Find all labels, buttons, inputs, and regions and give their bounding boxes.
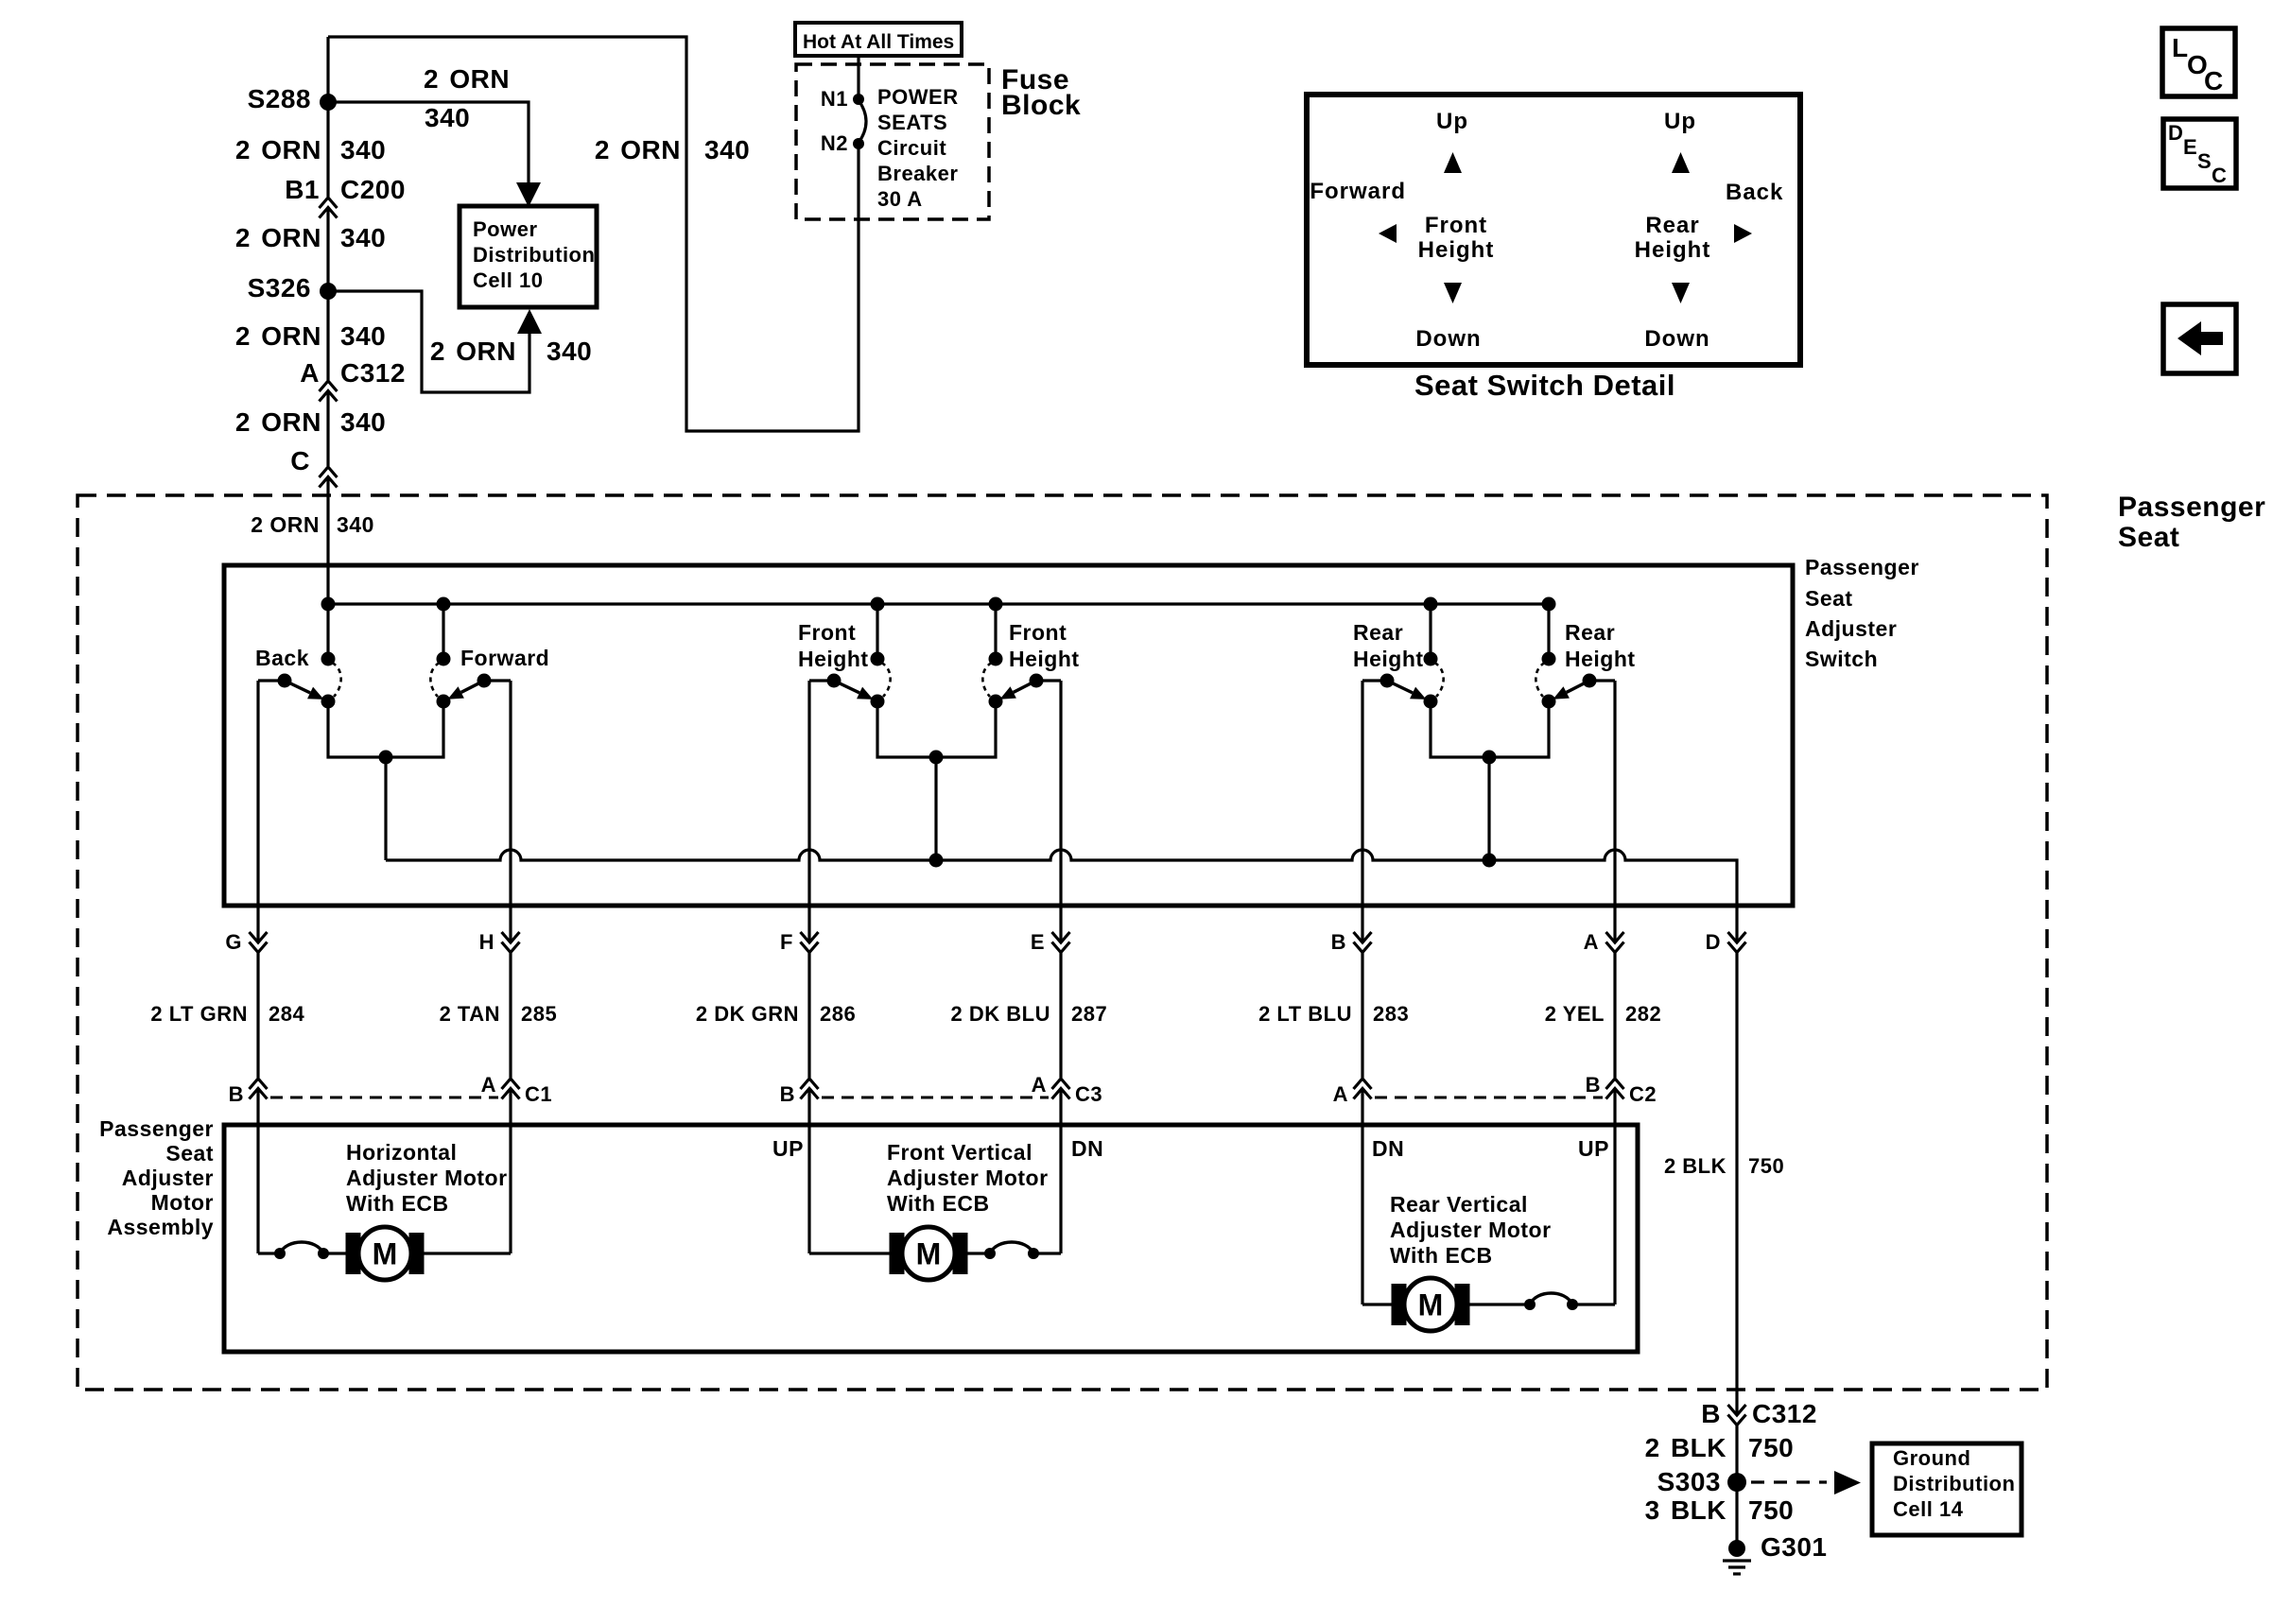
svg-text:2 ORN: 2 ORN [235, 407, 321, 437]
svg-text:Seat Switch Detail: Seat Switch Detail [1414, 369, 1675, 402]
svg-text:340: 340 [704, 135, 750, 164]
svg-text:2 DK BLU: 2 DK BLU [951, 1002, 1050, 1026]
svg-text:N1: N1 [821, 87, 848, 111]
svg-text:283: 283 [1373, 1002, 1409, 1026]
svg-text:Down: Down [1415, 326, 1481, 352]
svg-text:M: M [916, 1237, 942, 1271]
svg-text:C312: C312 [340, 358, 406, 388]
svg-text:Up: Up [1664, 109, 1696, 134]
svg-text:Back: Back [255, 646, 309, 670]
svg-text:Height: Height [1418, 237, 1495, 263]
svg-text:Passenger: Passenger [2118, 492, 2265, 523]
svg-text:B: B [780, 1082, 795, 1106]
svg-text:Adjuster Motor: Adjuster Motor [887, 1166, 1049, 1190]
svg-text:Breaker: Breaker [877, 162, 958, 185]
svg-text:2 TAN: 2 TAN [440, 1002, 500, 1026]
svg-text:A: A [300, 358, 320, 388]
svg-text:Front: Front [798, 620, 856, 645]
svg-text:Ground: Ground [1893, 1446, 1970, 1470]
svg-text:2 ORN: 2 ORN [424, 64, 510, 94]
svg-text:Back: Back [1726, 180, 1783, 205]
svg-text:285: 285 [521, 1002, 557, 1026]
svg-text:DN: DN [1372, 1136, 1404, 1161]
svg-text:M: M [373, 1237, 398, 1271]
svg-text:30 A: 30 A [877, 187, 923, 211]
svg-text:Block: Block [1001, 90, 1081, 121]
svg-text:Forward: Forward [460, 646, 549, 670]
svg-text:L: L [2172, 33, 2189, 62]
svg-text:A: A [481, 1073, 496, 1097]
svg-text:With ECB: With ECB [887, 1191, 990, 1216]
svg-text:Cell 10: Cell 10 [473, 268, 543, 292]
svg-text:D: D [1706, 930, 1721, 954]
svg-text:C312: C312 [1752, 1399, 1817, 1428]
svg-text:340: 340 [340, 135, 386, 164]
svg-text:UP: UP [1578, 1136, 1609, 1161]
svg-text:2 ORN: 2 ORN [235, 223, 321, 252]
svg-text:Motor: Motor [151, 1190, 214, 1215]
svg-text:3 BLK: 3 BLK [1645, 1495, 1726, 1525]
svg-text:C: C [2212, 164, 2227, 187]
svg-text:Front Vertical: Front Vertical [887, 1140, 1032, 1165]
svg-text:S288: S288 [248, 84, 311, 113]
svg-text:Height: Height [798, 647, 869, 671]
svg-text:D: D [2168, 121, 2183, 145]
svg-text:Adjuster: Adjuster [122, 1166, 214, 1190]
svg-text:S: S [2197, 149, 2212, 173]
svg-text:Seat: Seat [2118, 522, 2179, 553]
svg-text:340: 340 [547, 337, 592, 366]
svg-text:Adjuster: Adjuster [1805, 616, 1897, 641]
svg-text:750: 750 [1748, 1154, 1784, 1178]
svg-text:C: C [2204, 66, 2224, 95]
svg-text:Assembly: Assembly [107, 1215, 214, 1239]
svg-text:Distribution: Distribution [1893, 1472, 2015, 1495]
svg-text:Forward: Forward [1310, 179, 1406, 204]
svg-text:Horizontal: Horizontal [346, 1140, 457, 1165]
svg-text:B1: B1 [285, 175, 320, 204]
svg-text:340: 340 [340, 321, 386, 351]
svg-text:S303: S303 [1657, 1467, 1721, 1496]
svg-text:282: 282 [1625, 1002, 1661, 1026]
svg-text:Down: Down [1644, 326, 1709, 352]
svg-text:C1: C1 [525, 1082, 552, 1106]
svg-text:2 ORN: 2 ORN [430, 337, 516, 366]
svg-text:E: E [1031, 930, 1045, 954]
svg-text:Up: Up [1436, 109, 1468, 134]
svg-text:Height: Height [1009, 647, 1080, 671]
svg-text:750: 750 [1748, 1433, 1794, 1462]
svg-text:2 DK GRN: 2 DK GRN [696, 1002, 799, 1026]
svg-text:C: C [290, 446, 310, 475]
svg-text:DN: DN [1071, 1136, 1103, 1161]
svg-text:Rear Vertical: Rear Vertical [1390, 1192, 1528, 1217]
svg-text:340: 340 [340, 407, 386, 437]
svg-text:Rear: Rear [1645, 213, 1699, 238]
svg-text:B: B [1701, 1399, 1721, 1428]
svg-text:Seat: Seat [165, 1141, 214, 1166]
svg-text:Height: Height [1565, 647, 1636, 671]
svg-text:2 BLK: 2 BLK [1645, 1433, 1726, 1462]
svg-text:286: 286 [820, 1002, 856, 1026]
svg-text:POWER: POWER [877, 85, 959, 109]
svg-text:Power: Power [473, 217, 538, 241]
svg-text:2 ORN: 2 ORN [251, 512, 320, 537]
svg-text:2 BLK: 2 BLK [1664, 1154, 1726, 1178]
svg-text:N2: N2 [821, 131, 848, 155]
svg-text:G301: G301 [1761, 1532, 1828, 1562]
svg-text:340: 340 [425, 103, 470, 132]
svg-text:750: 750 [1748, 1495, 1794, 1525]
svg-text:340: 340 [337, 512, 374, 537]
svg-text:With ECB: With ECB [1390, 1243, 1493, 1268]
svg-text:H: H [479, 930, 495, 954]
svg-text:S326: S326 [248, 273, 311, 302]
svg-text:Front: Front [1009, 620, 1067, 645]
svg-text:Rear: Rear [1353, 620, 1403, 645]
svg-text:A: A [1032, 1073, 1047, 1097]
svg-text:E: E [2183, 135, 2197, 159]
svg-text:2 ORN: 2 ORN [595, 135, 681, 164]
svg-text:Rear: Rear [1565, 620, 1615, 645]
svg-text:B: B [1331, 930, 1346, 954]
svg-text:Adjuster Motor: Adjuster Motor [346, 1166, 508, 1190]
svg-text:Height: Height [1353, 647, 1424, 671]
svg-text:2 ORN: 2 ORN [235, 135, 321, 164]
svg-text:Distribution: Distribution [473, 243, 595, 267]
svg-text:Seat: Seat [1805, 586, 1853, 611]
svg-text:Circuit: Circuit [877, 136, 946, 160]
svg-text:A: A [1333, 1082, 1348, 1106]
svg-text:Passenger: Passenger [1805, 555, 1919, 579]
svg-text:G: G [225, 930, 242, 954]
svg-text:340: 340 [340, 223, 386, 252]
svg-text:C2: C2 [1629, 1082, 1657, 1106]
svg-text:M: M [1418, 1288, 1444, 1322]
svg-text:SEATS: SEATS [877, 111, 947, 134]
svg-text:287: 287 [1071, 1002, 1107, 1026]
svg-text:Passenger: Passenger [99, 1116, 214, 1141]
svg-text:2 YEL: 2 YEL [1545, 1002, 1605, 1026]
svg-text:Adjuster Motor: Adjuster Motor [1390, 1218, 1552, 1242]
svg-text:Switch: Switch [1805, 647, 1878, 671]
svg-text:2 LT BLU: 2 LT BLU [1258, 1002, 1352, 1026]
svg-text:Cell 14: Cell 14 [1893, 1497, 1964, 1521]
svg-text:C200: C200 [340, 175, 406, 204]
svg-text:B: B [229, 1082, 244, 1106]
svg-text:With ECB: With ECB [346, 1191, 449, 1216]
svg-text:F: F [780, 930, 793, 954]
svg-text:2 ORN: 2 ORN [235, 321, 321, 351]
svg-text:UP: UP [772, 1136, 804, 1161]
svg-text:284: 284 [269, 1002, 304, 1026]
svg-text:Height: Height [1635, 237, 1711, 263]
svg-text:C3: C3 [1075, 1082, 1102, 1106]
svg-text:A: A [1584, 930, 1599, 954]
svg-text:Hot At All Times: Hot At All Times [803, 31, 954, 53]
svg-text:2 LT GRN: 2 LT GRN [150, 1002, 248, 1026]
svg-text:Front: Front [1425, 213, 1487, 238]
svg-text:B: B [1586, 1073, 1601, 1097]
